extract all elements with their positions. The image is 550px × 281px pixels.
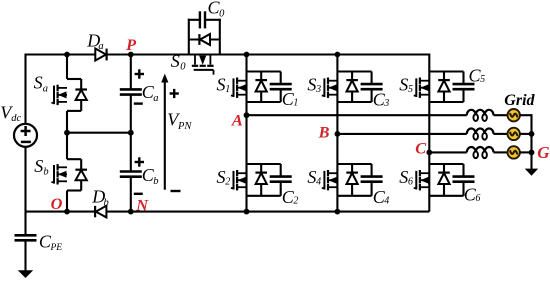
svg-text:4: 4: [384, 196, 389, 207]
svg-text:S: S: [217, 75, 226, 95]
node N: [135, 196, 149, 215]
node O: [51, 194, 63, 213]
arrow VPN: [164, 81, 166, 190]
svg-text:b: b: [104, 197, 109, 208]
label VPN: [167, 110, 192, 132]
wire S0 loop: [188, 19, 190, 55]
svg-text:3: 3: [383, 98, 389, 109]
label VPN minus: [171, 190, 181, 192]
svg-text:S: S: [399, 75, 408, 95]
node B: [318, 123, 330, 142]
node P: [125, 35, 137, 54]
label C3: [373, 89, 390, 109]
label S0: [171, 51, 186, 73]
svg-text:0: 0: [219, 8, 225, 19]
label C5: [469, 65, 486, 85]
node A: [231, 111, 243, 130]
svg-text:N: N: [135, 196, 149, 215]
transistor S5 with parallel diode and capacitor C5: [429, 70, 463, 72]
transistor S4 with parallel diode and capacitor C4: [337, 163, 371, 165]
transistor S2 with parallel diode and capacitor C2: [247, 163, 281, 165]
svg-text:6: 6: [475, 193, 480, 204]
diode D0 (left pointing, in S0 loop): [200, 34, 210, 45]
wire source-to-bus phase C: [520, 151, 532, 153]
voltage source Vdc: [14, 124, 37, 147]
ground G: [525, 169, 538, 176]
label S5: [399, 75, 413, 95]
wire top rail P: [26, 53, 430, 55]
svg-text:Grid: Grid: [504, 92, 535, 109]
node junction dots: [64, 52, 70, 58]
svg-text:4: 4: [316, 176, 321, 187]
label S6: [399, 167, 413, 187]
svg-text:C: C: [415, 138, 427, 157]
inductor phase B: [467, 128, 476, 133]
label Grid: [504, 92, 535, 109]
svg-text:S: S: [217, 167, 226, 187]
wire left vertical upper (Vdc to top rail): [24, 54, 26, 125]
wire leg 3: [428, 54, 430, 212]
svg-text:1: 1: [293, 97, 298, 108]
svg-text:P: P: [125, 35, 137, 54]
wire left vertical lower (Vdc to bottom rail): [24, 147, 26, 212]
label C4: [373, 187, 390, 207]
svg-text:S: S: [307, 75, 316, 95]
label S2: [217, 167, 231, 187]
node C: [415, 138, 427, 157]
label Ca: [142, 82, 159, 104]
transistor Sb: [67, 158, 81, 160]
AC source phase A: [508, 109, 520, 121]
AC source phase B: [508, 128, 520, 140]
wire Sa-Sb branch middle: [66, 111, 68, 159]
wire coil-to-source phase C: [494, 151, 508, 153]
svg-text:S: S: [399, 167, 408, 187]
label Da: [86, 31, 103, 52]
label C1: [282, 89, 299, 109]
wire phase C: [429, 151, 467, 153]
transistor Sa: [67, 78, 81, 80]
svg-text:b: b: [153, 176, 158, 187]
capacitor Cb: [120, 170, 142, 173]
transistor S3 with parallel diode and capacitor C3: [337, 70, 371, 72]
label C6: [464, 184, 481, 204]
wire bottom rail N: [26, 211, 430, 213]
svg-text:a: a: [98, 41, 103, 52]
polarity marks Cb: [135, 161, 144, 163]
diode Da: [95, 49, 106, 61]
svg-text:A: A: [231, 111, 243, 130]
wire leg 2: [336, 55, 338, 212]
svg-text:dc: dc: [11, 113, 21, 124]
wire source-to-bus phase B: [520, 133, 532, 135]
svg-text:S: S: [34, 156, 43, 176]
label C2: [282, 187, 299, 207]
capacitor Ca: [120, 88, 142, 91]
label CPE: [39, 232, 62, 254]
wire phase A: [247, 114, 467, 116]
svg-text:G: G: [537, 143, 550, 162]
transistor S1 with parallel diode and capacitor C1: [247, 70, 281, 72]
svg-text:2: 2: [293, 196, 298, 207]
svg-text:6: 6: [408, 176, 413, 187]
wire Ca-Cb branch: [130, 55, 132, 89]
svg-text:a: a: [153, 93, 158, 104]
label S4: [307, 167, 321, 187]
transistor S0: [194, 55, 196, 65]
label S3: [307, 75, 321, 95]
node G: [537, 143, 550, 162]
label Cb: [142, 165, 159, 187]
svg-text:O: O: [51, 194, 63, 213]
diode Db: [96, 206, 107, 218]
wire grid bus vertical: [530, 114, 532, 169]
svg-text:1: 1: [225, 84, 230, 95]
wire coil-to-source phase B: [494, 133, 508, 135]
label C0: [208, 0, 226, 19]
label Vdc: [0, 102, 21, 124]
transistor S6 with parallel diode and capacitor C6: [429, 163, 463, 165]
svg-text:3: 3: [315, 84, 321, 95]
svg-text:S: S: [34, 73, 43, 93]
svg-text:PN: PN: [177, 121, 192, 132]
wire phase B: [337, 133, 466, 135]
inductor phase C: [467, 147, 476, 152]
ground (chassis, below CPE): [18, 270, 33, 278]
wire CPE branch: [24, 212, 26, 235]
label Sb: [34, 156, 48, 177]
svg-text:a: a: [43, 83, 48, 94]
label S1: [217, 75, 231, 95]
wire Sa-Sb branch upper: [66, 55, 68, 80]
svg-text:S: S: [307, 167, 316, 187]
svg-text:S: S: [171, 51, 180, 71]
capacitor C0: [199, 11, 201, 28]
polarity marks Ca: [135, 73, 144, 75]
svg-text:5: 5: [408, 84, 413, 95]
wire leg 1: [245, 55, 247, 212]
svg-text:PE: PE: [50, 243, 63, 253]
wire Sa-Sb branch lower: [66, 191, 68, 212]
svg-text:5: 5: [480, 74, 485, 85]
AC source phase C: [508, 146, 520, 158]
svg-text:b: b: [43, 166, 48, 177]
wire coil-to-source phase A: [494, 114, 508, 116]
svg-text:2: 2: [225, 176, 230, 187]
label VPN plus: [170, 89, 179, 98]
svg-text:0: 0: [180, 62, 186, 73]
label Db: [91, 186, 108, 208]
wire midpoint link: [67, 132, 131, 134]
wire source-to-bus phase A: [520, 114, 532, 116]
inductor phase A: [467, 110, 476, 115]
svg-text:B: B: [318, 123, 330, 142]
capacitor CPE: [15, 234, 37, 237]
label Sa: [34, 73, 48, 95]
